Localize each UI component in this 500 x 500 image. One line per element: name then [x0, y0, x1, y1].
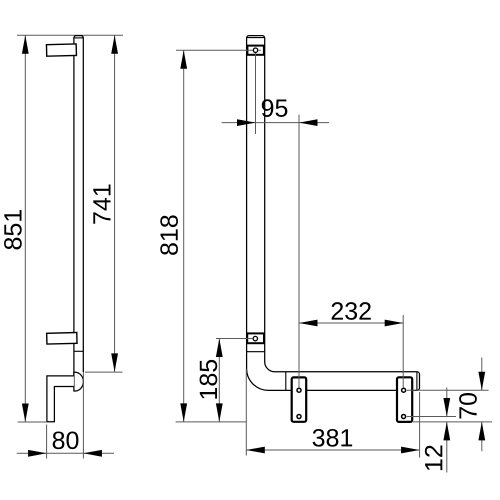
arrow 851 bottom — [22, 404, 29, 423]
floor bracket 2 — [397, 377, 412, 422]
arrow 95 right — [299, 119, 318, 126]
tube cap joint line (left) — [74, 37, 83, 39]
arrow 381 left — [246, 447, 264, 454]
extension line 185 top — [216, 338, 253, 340]
elbow end cap D-shape (left) — [74, 372, 84, 391]
dimension 232 line — [299, 322, 403, 324]
label 95 — [262, 99, 288, 117]
arrow 851 top — [22, 35, 29, 54]
bracket 1 screw upper — [297, 388, 301, 392]
bottom support arm and wall post (left) — [47, 376, 74, 422]
arrow 818 top — [180, 50, 187, 68]
bracket 2 screw lower — [402, 415, 406, 419]
extension line top shared (left view) — [17, 34, 123, 36]
bracket 1 screw lower — [297, 415, 301, 419]
tube joint line vertical segment (right view) — [247, 351, 265, 353]
top plate flange box — [247, 46, 264, 55]
arrow 70 upper — [478, 372, 485, 391]
arrow 232 right — [385, 320, 404, 327]
label 70 — [459, 393, 477, 419]
arrow 70 lower — [478, 422, 485, 441]
dimension 12 line lower — [446, 422, 448, 473]
extension line 12 top — [407, 416, 456, 418]
arrow 381 right — [401, 447, 420, 454]
dimension 80 line — [17, 452, 114, 454]
tube sleeve joint line (left) — [74, 350, 83, 352]
arrow 818 bottom — [180, 403, 187, 422]
top plate screw — [253, 48, 257, 52]
extension line 381 left — [245, 369, 247, 456]
floor bracket 1 — [292, 377, 307, 421]
label 185 — [200, 360, 218, 399]
extension line 381 right — [419, 392, 421, 458]
dimension 12 line upper — [446, 388, 448, 417]
arrow 185 bottom — [216, 403, 223, 422]
dimension 381 line — [246, 449, 419, 451]
arrow 95 left — [237, 119, 256, 126]
label 80 — [53, 431, 79, 449]
label 741 — [93, 185, 110, 224]
top plate cap line — [247, 37, 265, 39]
tube end cap line (right view) — [416, 372, 418, 391]
extension line 232 right — [402, 315, 404, 388]
arrow 12 upper — [443, 398, 450, 417]
top wall bracket (left) — [46, 44, 76, 56]
lower wall bracket flange box (right view) — [247, 333, 264, 343]
dimension 851 line — [24, 35, 26, 422]
extension line 95 center — [255, 53, 257, 134]
dimension 70 line upper — [481, 358, 483, 391]
tube joint line horizontal segment (right view) — [285, 372, 287, 391]
extension line 741 bottom — [85, 371, 123, 373]
label 818 — [160, 215, 178, 255]
middle wall bracket (left) — [47, 333, 77, 345]
label 381 — [313, 429, 353, 447]
label 851 — [4, 210, 22, 249]
arrow 741 top — [111, 35, 118, 54]
arrow 741 bottom — [111, 353, 118, 372]
label 232 — [332, 302, 371, 320]
label 12 — [425, 445, 442, 470]
dimension 70 line lower — [481, 422, 483, 451]
extension line 851 bottom — [18, 421, 47, 423]
lower wall bracket screw — [253, 336, 257, 340]
extension line 95/232 long vertical — [298, 115, 300, 388]
extension line 80 left — [46, 425, 48, 459]
arrow 12 lower — [443, 422, 450, 441]
arrow 232 left — [299, 320, 318, 327]
arrow 80 right — [83, 450, 102, 457]
extension line 70/12 bottom — [413, 421, 492, 423]
dimension 185 line — [218, 339, 220, 422]
dimension 741 line — [114, 35, 116, 372]
extension line 818 top — [176, 49, 253, 51]
L-shaped tube (front view) — [247, 36, 420, 391]
bracket 2 screw upper — [402, 388, 406, 392]
extension line 70 top — [407, 389, 489, 391]
arrow 80 left — [28, 450, 46, 457]
arrow 185 top — [216, 339, 223, 358]
dimension 818 line — [183, 50, 185, 422]
extension line 80 right — [82, 372, 84, 458]
tube side view (left) — [74, 36, 83, 376]
dimension 95 line — [222, 122, 329, 124]
extension line 818/185 bottom — [176, 421, 247, 423]
